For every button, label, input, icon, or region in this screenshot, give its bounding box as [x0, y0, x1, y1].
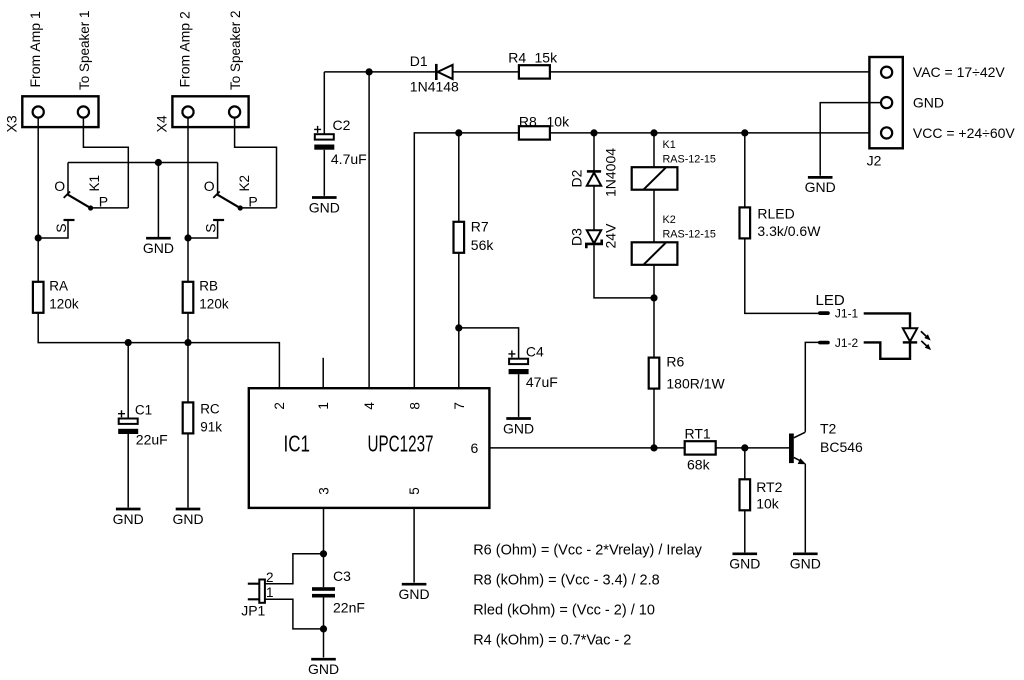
svg-text:D2: D2	[569, 169, 585, 187]
svg-text:RT1: RT1	[685, 425, 711, 441]
svg-text:47uF: 47uF	[526, 374, 558, 390]
svg-text:From Amp 2: From Amp 2	[177, 11, 193, 87]
svg-text:R8: R8	[519, 113, 537, 129]
svg-text:GND: GND	[913, 95, 944, 111]
diode D1 1N4148	[436, 64, 452, 80]
svg-text:UPC1237: UPC1237	[368, 431, 434, 457]
wire R8 to J2 VCC	[550, 132, 881, 134]
svg-text:R4: R4	[508, 49, 526, 65]
wire RT2 drop	[744, 448, 746, 479]
wire R7 to pin 7	[458, 253, 460, 388]
pad J1-2	[818, 341, 830, 345]
svg-text:RLED: RLED	[757, 205, 794, 221]
contact S1 tip	[64, 219, 75, 221]
svg-text:T2: T2	[820, 421, 837, 437]
svg-text:O: O	[54, 178, 65, 194]
svg-text:RB: RB	[199, 279, 218, 294]
svg-text:K2: K2	[237, 175, 252, 192]
wire C2 to ground	[323, 150, 325, 196]
svg-text:X4: X4	[154, 115, 170, 132]
svg-text:VCC = +24÷60V: VCC = +24÷60V	[913, 125, 1016, 141]
node S1 junction	[35, 234, 42, 241]
transistor T2 BC546	[791, 432, 806, 464]
wire K2 pole P	[241, 207, 277, 209]
ground (pin 5)	[399, 584, 430, 602]
wire pin 5 to ground	[413, 508, 415, 583]
wire pin 4 drop	[368, 72, 370, 388]
svg-text:S: S	[203, 223, 219, 232]
svg-text:180R/1W: 180R/1W	[666, 375, 725, 391]
wire X3-2 to K1 pole	[83, 118, 128, 208]
wire K2 coil down	[653, 265, 655, 358]
resistor R6	[649, 358, 660, 389]
wire X3-1 down to RA	[37, 118, 39, 282]
wire J1-1 to LED anode	[864, 313, 910, 328]
wire C4 branch	[459, 328, 519, 359]
svg-text:15k: 15k	[535, 49, 559, 65]
svg-text:R6 (Ohm) = (Vcc - 2*Vrelay) /: R6 (Ohm) = (Vcc - 2*Vrelay) / Irelay	[473, 543, 702, 559]
capacitor C1	[118, 410, 138, 434]
wire C4 to ground	[518, 374, 520, 417]
diode D3 24V zener	[586, 230, 601, 248]
node C3 top junction	[320, 550, 327, 557]
relay contact K1	[64, 192, 93, 211]
wire C3 to ground	[323, 598, 325, 658]
ground (C3)	[308, 659, 339, 677]
svg-text:22uF: 22uF	[136, 432, 168, 448]
resistor RLED	[740, 207, 751, 238]
node RC junction	[184, 339, 191, 346]
wire J2 GND pin to ground	[820, 103, 881, 176]
wire K2 contact S	[188, 220, 218, 238]
svg-text:3: 3	[317, 487, 332, 495]
svg-text:120k: 120k	[199, 297, 229, 312]
svg-text:J1-1: J1-1	[835, 307, 859, 321]
wire T2 emitter to ground	[804, 464, 806, 553]
svg-text:To Speaker 1: To Speaker 1	[77, 10, 92, 90]
wire R4 to J2 VAC	[550, 71, 881, 73]
resistor RT1	[685, 441, 716, 454]
node C4 junction	[455, 324, 462, 331]
node K1 top junction	[650, 129, 657, 136]
node pin 4 junction	[366, 68, 373, 75]
resistor RB	[183, 282, 194, 313]
svg-text:C2: C2	[333, 117, 351, 133]
node RLED top junction	[741, 129, 748, 136]
pad J1-1	[818, 311, 830, 315]
ground (C2)	[309, 198, 340, 216]
wire contact bus	[68, 162, 218, 164]
wire RT2 to ground	[744, 510, 746, 552]
svg-text:22nF: 22nF	[333, 599, 365, 615]
svg-text:R6: R6	[666, 353, 684, 369]
capacitor C2	[314, 126, 334, 150]
svg-text:K1: K1	[663, 139, 676, 151]
wire VCC to D2	[593, 133, 595, 171]
svg-text:P: P	[99, 194, 108, 210]
wire LED cathode loop to J1-2	[864, 342, 910, 358]
svg-text:RA: RA	[49, 279, 68, 294]
connector X4	[172, 96, 248, 127]
jumper JP1	[248, 580, 265, 603]
svg-text:X3: X3	[4, 115, 20, 132]
op-amp IC1 UPC1237 box	[249, 388, 490, 508]
svg-text:BC546: BC546	[820, 439, 863, 455]
capacitor C3	[312, 587, 335, 597]
node RT2 junction	[741, 444, 748, 451]
wire bus to RC	[187, 343, 189, 403]
ground (RC)	[172, 509, 203, 527]
wire X4-2 to K2 pole	[235, 118, 277, 208]
wire RC to ground	[187, 433, 189, 507]
svg-text:RAS-12-15: RAS-12-15	[663, 229, 716, 241]
wire sense bus RA/RB/RC to IC pin 2	[38, 313, 279, 388]
wire VCC to RLED	[744, 133, 746, 208]
connector X3	[22, 96, 98, 127]
node S2 junction	[184, 234, 191, 241]
svg-text:K1: K1	[87, 175, 102, 192]
svg-text:K2: K2	[663, 214, 676, 226]
node R7 top junction	[455, 129, 462, 136]
svg-text:From Amp 1: From Amp 1	[27, 11, 43, 87]
wire JP1-1 to C3 bottom node	[265, 599, 324, 629]
connector J2	[869, 57, 902, 148]
svg-text:10k: 10k	[756, 496, 780, 512]
wire K1 contact S	[38, 220, 68, 238]
svg-text:O: O	[204, 178, 215, 194]
svg-text:JP1: JP1	[241, 603, 265, 619]
wire pin 3 to C3	[323, 508, 325, 587]
svg-text:IC1: IC1	[284, 431, 311, 457]
capacitor C4	[508, 350, 528, 374]
ground (speaker common)	[143, 238, 174, 256]
svg-text:2: 2	[272, 402, 287, 410]
node C3 bottom junction	[320, 625, 327, 632]
wire J1-2 to T2 collector	[805, 342, 818, 432]
node C1 junction	[125, 339, 132, 346]
relay contact K2	[213, 192, 242, 211]
relay coil K2	[632, 242, 678, 264]
svg-text:7: 7	[452, 402, 467, 410]
wire R6 to pin6 line	[653, 389, 655, 448]
svg-text:68k: 68k	[687, 457, 711, 473]
wire R7 drop	[458, 133, 460, 222]
wire D1 to R4	[453, 71, 519, 73]
resistor RT2	[740, 479, 751, 510]
wire pin 8 riser	[414, 133, 519, 388]
svg-text:8: 8	[407, 402, 422, 410]
resistor R8	[519, 126, 550, 139]
diode D2 1N4004	[587, 171, 601, 185]
svg-text:Rled (kOhm) = (Vcc - 2) / 10: Rled (kOhm) = (Vcc - 2) / 10	[473, 602, 655, 618]
svg-text:To Speaker 2: To Speaker 2	[228, 10, 243, 90]
wire X4-1 down to RB	[187, 118, 189, 282]
wire D2 to D3	[593, 186, 595, 230]
svg-text:D3: D3	[569, 228, 585, 246]
wire top VAC line C2 to D1	[324, 71, 435, 73]
wire C1 to ground	[127, 434, 129, 508]
LED D4	[903, 328, 917, 342]
svg-text:4.7uF: 4.7uF	[331, 151, 367, 167]
wire K1 pole P	[91, 207, 128, 209]
resistor RC	[183, 402, 194, 433]
svg-text:P: P	[248, 194, 257, 210]
node contact bus junction	[155, 159, 162, 166]
svg-text:J2: J2	[867, 153, 882, 169]
ground (C4)	[503, 419, 534, 437]
svg-text:24V: 24V	[603, 223, 619, 249]
node R6 bottom junction	[650, 444, 657, 451]
svg-text:RT2: RT2	[756, 479, 782, 495]
svg-text:S: S	[53, 223, 69, 232]
svg-text:2: 2	[266, 570, 274, 585]
wire bus to ground	[157, 163, 159, 238]
wire pin 1 stub	[322, 358, 324, 388]
svg-text:C1: C1	[135, 402, 152, 417]
contact S2 tip	[213, 219, 224, 221]
svg-text:120k: 120k	[49, 297, 79, 312]
svg-text:R7: R7	[471, 219, 489, 235]
ground (T2)	[790, 554, 821, 572]
svg-text:D1: D1	[410, 53, 428, 69]
node R6 top junction	[650, 294, 657, 301]
svg-text:RC: RC	[200, 402, 220, 417]
wire K2 contact O drop	[217, 163, 219, 195]
resistor RA	[33, 282, 44, 313]
relay coil K1	[632, 167, 678, 190]
svg-text:1N4004: 1N4004	[603, 148, 619, 197]
resistor R7	[454, 222, 465, 253]
wire RT1 to T2 base	[716, 447, 790, 449]
ground (C1)	[113, 509, 144, 527]
svg-text:RAS-12-15: RAS-12-15	[663, 154, 716, 166]
svg-text:C4: C4	[526, 343, 544, 359]
ground (J2)	[805, 177, 836, 195]
wire K1 to K2 coil	[653, 190, 655, 243]
wire VCC to K1 coil	[653, 133, 655, 167]
svg-text:1N4148: 1N4148	[410, 79, 459, 95]
svg-text:56k: 56k	[471, 237, 495, 253]
wire RB bottom to bus	[187, 313, 189, 343]
svg-text:91k: 91k	[200, 420, 222, 435]
svg-text:J1-2: J1-2	[835, 336, 859, 350]
wire JP1-2 to pin 3 node	[265, 554, 324, 584]
svg-text:6: 6	[471, 440, 479, 456]
svg-text:R8 (kOhm) = (Vcc - 3.4) / 2.8: R8 (kOhm) = (Vcc - 3.4) / 2.8	[473, 573, 660, 589]
svg-text:4: 4	[362, 402, 377, 410]
svg-text:3.3k/0.6W: 3.3k/0.6W	[757, 223, 821, 239]
wire K1 contact O drop	[67, 163, 69, 195]
svg-text:VAC = 17÷42V: VAC = 17÷42V	[913, 64, 1006, 80]
resistor R4	[519, 65, 550, 78]
node D2 top junction	[590, 129, 597, 136]
wire bus to C1	[127, 343, 129, 419]
LED light arrows	[921, 331, 931, 350]
svg-text:10k: 10k	[547, 113, 571, 129]
wire C2 top	[323, 72, 325, 134]
svg-text:C3: C3	[333, 568, 351, 584]
ground (RT2)	[729, 554, 760, 572]
svg-text:R4 (kOhm) = 0.7*Vac - 2: R4 (kOhm) = 0.7*Vac - 2	[473, 632, 631, 648]
wire pin 6 to RT1	[489, 447, 684, 449]
svg-text:5: 5	[407, 487, 422, 495]
svg-text:1: 1	[266, 585, 274, 600]
wire RLED to J1-1 pad	[745, 238, 819, 313]
wire D3 to K2 bottom node	[594, 244, 654, 298]
svg-text:1: 1	[316, 402, 331, 410]
